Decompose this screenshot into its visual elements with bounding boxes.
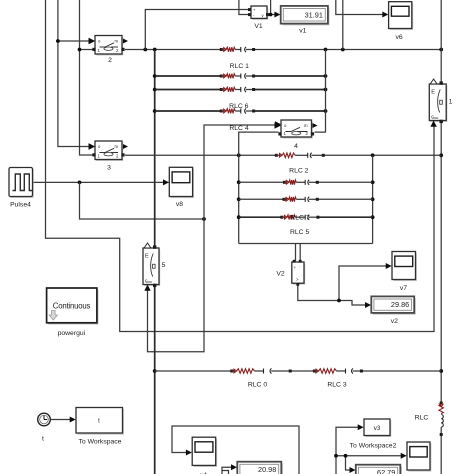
svg-text:RLC 5: RLC 5: [290, 229, 309, 236]
svg-text:1: 1: [449, 99, 453, 106]
svg-text:3: 3: [107, 165, 111, 172]
wire: bottom-left loop to scope: [172, 426, 299, 474]
svg-text:RLC 7: RLC 7: [290, 215, 309, 222]
wire: top riser to scope v6: [336, 0, 385, 15]
wire: stub into display 20.98: [222, 467, 232, 474]
scope bottom-left: [192, 437, 217, 474]
scope v8: [169, 167, 194, 208]
svg-text:·: ·: [299, 264, 300, 269]
svg-text:v1: v1: [299, 28, 306, 35]
wire: V2 measurement drops: [296, 244, 301, 262]
arrow into scope v7: [386, 263, 392, 269]
svg-text:E: E: [145, 254, 149, 260]
wire: row 2: [155, 74, 328, 78]
scope v7: [392, 252, 417, 293]
RLC branch row2: [220, 73, 255, 78]
wire: row C: [239, 198, 373, 200]
display 20.98: [237, 462, 283, 474]
wire: clock to To Workspace: [51, 419, 71, 421]
svg-text:Pulse4: Pulse4: [10, 202, 31, 209]
clock: [38, 413, 51, 442]
display v2: [371, 296, 416, 325]
RLC branch row3 (RLC 6): [220, 87, 255, 92]
wire: breaker 2 output row 1: [125, 48, 443, 52]
svg-text:29.86: 29.86: [391, 300, 409, 309]
arrow into display v2: [365, 302, 371, 308]
svg-text:v7: v7: [400, 285, 407, 292]
svg-text:5: 5: [162, 262, 166, 269]
display 62.79: [356, 465, 402, 474]
wire: row D: [239, 216, 373, 218]
wire: bottom-right riser x=336 to v3, scope, display: [334, 427, 401, 474]
RLC branch rowA (RLC 2): [275, 153, 325, 158]
wire: V1 output to display v1, riser up: [267, 0, 277, 16]
arrow into scope bottom-right: [401, 453, 407, 459]
pulse generator Pulse4: [9, 168, 34, 209]
svg-text:m: m: [115, 39, 119, 44]
arrow into scope bottom-left: [186, 450, 192, 456]
svg-text:v6: v6: [396, 34, 403, 41]
powergui block: [47, 288, 99, 337]
wire: V2 output to scope v7 and display v2: [298, 266, 387, 305]
voltage measurement V2: [276, 260, 305, 286]
To Workspace block t: [76, 408, 124, 446]
wire: RLC2 group right bus x=372.6: [371, 155, 375, 243]
RLC branch row1 (RLC 1): [220, 47, 255, 52]
display v1: [281, 6, 330, 35]
scope bottom-right: [407, 442, 431, 472]
RLC branch rowC: [283, 197, 319, 202]
breaker 3: [89, 141, 129, 172]
wire: V1 minus port from top: [239, 0, 249, 15]
arrow into display 62.79: [350, 467, 356, 473]
wire: control riser x=204 to breaker 4 and breaker 5: [148, 125, 277, 352]
svg-text:m: m: [115, 144, 119, 149]
svg-text:E: E: [431, 90, 435, 96]
wire: bottom RLC0/RLC3 line y=371: [155, 370, 442, 372]
svg-text:Continuous: Continuous: [53, 302, 91, 311]
arrow into display v1: [274, 12, 280, 18]
svg-text:2: 2: [108, 57, 112, 64]
breaker 2: [89, 36, 129, 64]
wire: row1 up to V1 plus port: [145, 10, 249, 50]
arrow into display 20.98: [231, 464, 237, 470]
RLC branch rowD (RLC 7): [280, 215, 319, 220]
RLC branch RLC 0: [230, 368, 291, 373]
svg-text:m: m: [304, 123, 308, 128]
svg-text:31.91: 31.91: [305, 10, 323, 19]
svg-text:V1: V1: [254, 23, 263, 30]
wire: left bus x=154.7 down to breaker 5: [153, 50, 157, 474]
arrow into scope v8: [163, 179, 169, 185]
breaker 4: [275, 120, 318, 150]
arrow into breaker4 c: [275, 121, 281, 127]
scope v6: [389, 2, 414, 41]
svg-text:v3: v3: [374, 425, 381, 432]
svg-text:RLC 4: RLC 4: [229, 125, 248, 132]
breaker 1 (right vertical): [429, 79, 452, 127]
svg-text:t: t: [42, 436, 44, 443]
svg-text:RLC 3: RLC 3: [327, 382, 346, 389]
svg-text:To Workspace2: To Workspace2: [350, 443, 397, 450]
svg-text:V2: V2: [276, 271, 285, 278]
svg-text:RLC 2: RLC 2: [289, 168, 308, 175]
arrow into scope v6: [382, 12, 388, 18]
svg-text:v2: v2: [391, 318, 398, 325]
svg-text:62.79: 62.79: [377, 468, 395, 474]
wire: breaker port1 feeder x=79.5: [78, 0, 93, 155]
wire: right bus x=325.5 to breaker 4 port 2: [315, 50, 326, 133]
svg-text:RLC 1: RLC 1: [230, 63, 249, 70]
RLC branch RLC 3: [313, 368, 363, 373]
wire: breaker c feeder x=57.9: [56, 0, 90, 147]
svg-text:RLC 6: RLC 6: [229, 103, 248, 110]
wire: row 4: [155, 109, 328, 113]
svg-text:RLC: RLC: [415, 415, 429, 422]
svg-text:RLC 0: RLC 0: [248, 382, 267, 389]
svg-text:20.98: 20.98: [258, 465, 276, 474]
arrow into block v3: [358, 424, 364, 430]
RLC branch rowB: [283, 180, 319, 185]
RLC branch vertical (RLC) on x=441.2: [439, 402, 443, 437]
breaker 5 (left vertical): [143, 243, 166, 291]
wire: top riser x=342.8 to row1: [342, 0, 344, 50]
svg-text:4: 4: [294, 143, 298, 150]
wire: right main vertical x=441.2: [439, 0, 443, 474]
wire: row B: [239, 181, 373, 183]
wire: Pulse4 to scope v8: [33, 181, 169, 185]
svg-text:To Workspace: To Workspace: [79, 439, 122, 446]
arrow into breaker3 c: [89, 144, 95, 150]
RLC branch row4 (RLC 4): [220, 108, 255, 113]
wire: control bus from top to breaker 1 (left vertical x=45.5): [46, 0, 435, 332]
voltage measurement V1: [248, 6, 269, 30]
svg-text:v8: v8: [176, 201, 183, 208]
wire: row 3: [155, 88, 328, 92]
To Workspace2 block v3: [350, 419, 397, 450]
svg-text:powergui: powergui: [58, 330, 86, 337]
wire: pulse control drop to node (204,219): [80, 182, 206, 221]
wire: RLC2 group left bus x=238.7: [237, 132, 279, 243]
wire: breaker 3 output long wire to RLC2 group row A: [125, 153, 441, 157]
wire: group bottom joining wire y=243.5: [239, 243, 373, 245]
arrow into To Workspace t: [70, 417, 76, 423]
arrow into breaker2 c: [89, 38, 95, 44]
